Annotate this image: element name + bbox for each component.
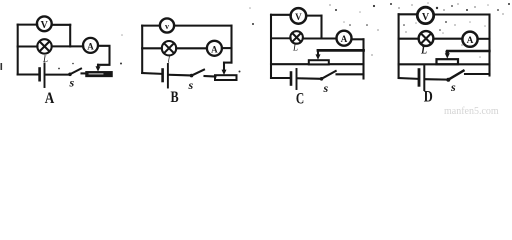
voltmeter V (C) — [291, 8, 307, 24]
wire right rail B — [230, 26, 232, 63]
wire switch to right rail C — [337, 73, 364, 75]
wire left rail C — [270, 15, 272, 78]
battery (D) long plate — [423, 66, 425, 90]
rheostat slider arrow B — [222, 63, 227, 75]
wire battery row left D — [399, 77, 418, 80]
battery (D) short plate — [418, 70, 421, 86]
wire left rail A — [17, 25, 19, 75]
wire lamp row left B — [142, 47, 162, 49]
svg-text:V: V — [295, 12, 302, 22]
svg-text:s: s — [69, 76, 75, 90]
svg-text:v: v — [165, 22, 169, 31]
wire ammeter to right rail C — [352, 38, 364, 40]
switch S (C) — [320, 71, 336, 81]
wire ammeter to right rail D — [478, 38, 490, 40]
wire left rail B — [141, 26, 143, 73]
rheostat slider arrow C — [316, 50, 321, 59]
wire switch to rheostat B — [205, 75, 216, 78]
svg-text:A: A — [45, 90, 55, 107]
lamp L (C) — [290, 31, 303, 44]
voltmeter V (A) — [37, 16, 52, 31]
wire right rail C — [362, 39, 364, 78]
svg-text:L: L — [292, 43, 298, 53]
wire switch to right rail D — [465, 73, 490, 75]
wire right rail D — [488, 15, 490, 76]
svg-text:s: s — [323, 81, 329, 95]
wire step to slider C — [318, 49, 364, 52]
battery (A) short plate — [38, 69, 41, 81]
svg-text:A: A — [467, 35, 474, 45]
wire top branch B right — [174, 25, 231, 27]
voltmeter V (B) — [160, 18, 174, 32]
svg-text:V: V — [41, 20, 49, 31]
rheostat box A — [86, 72, 112, 77]
svg-text:A: A — [87, 41, 94, 51]
wire lamp row left C — [271, 37, 291, 39]
lamp L (A) — [37, 39, 51, 53]
svg-text:manfen5.com: manfen5.com — [444, 106, 499, 116]
wire lamp to ammeter B — [176, 47, 207, 49]
switch S (B) — [190, 70, 204, 78]
voltmeter V (D) — [417, 7, 433, 23]
scan noise specks — [1, 3, 511, 73]
switch S (D) — [446, 71, 463, 82]
wire battery row left A — [18, 73, 39, 75]
wire top branch C left — [271, 14, 291, 16]
ammeter A (C) — [337, 31, 352, 46]
svg-text:s: s — [450, 80, 456, 94]
rheostat row wire C — [271, 63, 364, 65]
rheostat box C — [309, 60, 329, 64]
svg-text:L: L — [420, 46, 427, 57]
svg-text:V: V — [422, 12, 430, 23]
wire battery to switch D — [426, 78, 447, 80]
wire lamp row left A — [18, 45, 38, 47]
svg-text:D: D — [424, 88, 433, 106]
light scan smudges — [121, 2, 504, 58]
wire lamp to ammeter C — [303, 38, 337, 40]
svg-text:A: A — [211, 44, 218, 54]
wire battery to switch A — [46, 74, 69, 76]
battery (C) long plate — [296, 69, 298, 89]
wire lamp row left D — [399, 38, 419, 40]
wire lamp to ammeter A — [52, 45, 83, 47]
wire node drop C — [320, 16, 322, 39]
wire top branch A — [18, 24, 38, 26]
svg-text:L: L — [42, 54, 48, 64]
ammeter A (B) — [207, 41, 222, 56]
wire top branch D right — [434, 13, 490, 15]
rheostat box D — [437, 59, 459, 64]
lamp L (B) — [162, 41, 176, 55]
wire ammeter to right rail B — [222, 47, 232, 49]
svg-text:s: s — [188, 78, 194, 92]
wire top branch D left — [399, 13, 418, 15]
wire step to slider D — [447, 50, 489, 52]
rheostat slider arrow A — [96, 65, 101, 72]
rheostat slider arrow D — [445, 50, 450, 59]
rheostat row wire D — [399, 63, 490, 65]
svg-text:B: B — [170, 88, 179, 106]
ammeter A (A) — [83, 38, 98, 53]
battery (C) short plate — [290, 73, 293, 85]
svg-text:A: A — [341, 34, 348, 44]
wire node drop A — [69, 25, 71, 47]
wire battery row left C — [271, 77, 289, 79]
wire ammeter right step down A — [98, 46, 110, 65]
battery (B) short plate — [161, 70, 164, 82]
svg-text:C: C — [296, 91, 304, 108]
wire step to slider B — [224, 62, 232, 64]
wire lamp to ammeter D — [433, 38, 462, 40]
wire top branch B left — [142, 25, 160, 27]
wire left rail D — [398, 14, 400, 78]
wire battery to switch B — [169, 74, 190, 77]
switch S (A) — [68, 69, 81, 77]
battery (A) long plate — [44, 64, 46, 88]
wire V to node A — [52, 24, 70, 26]
wire top branch C right — [306, 15, 321, 17]
rheostat box B — [215, 75, 237, 80]
lamp L (D) — [419, 31, 434, 46]
battery (B) long plate — [167, 64, 169, 88]
wire battery to switch C — [298, 77, 320, 80]
wire switch to rheostat A — [82, 72, 87, 74]
wire battery row left B — [142, 72, 161, 75]
ammeter A (D) — [462, 32, 477, 47]
